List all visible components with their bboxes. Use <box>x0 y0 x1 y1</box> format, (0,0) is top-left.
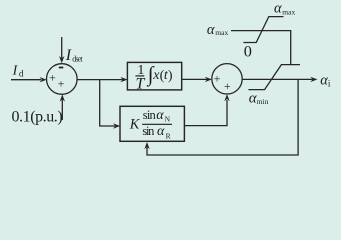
limiter L2 saturation glyph <box>248 65 300 90</box>
wire: S2 output to alpha_i <box>242 78 312 80</box>
svg-text:N: N <box>165 115 171 124</box>
svg-text:+: + <box>49 70 56 84</box>
wire: K block output up into S2 <box>184 100 227 126</box>
svg-text:I: I <box>65 47 72 64</box>
svg-text:R: R <box>166 132 171 141</box>
sign minus in S1 top <box>59 67 64 69</box>
arrowhead K output into S2 bottom <box>224 94 229 101</box>
svg-text:+: + <box>214 72 221 86</box>
arrowhead feedback into K bottom <box>144 142 149 149</box>
block U1 integrator <box>127 62 181 90</box>
wire: Id input line <box>11 79 41 81</box>
svg-text:0.1(p.u.): 0.1(p.u.) <box>12 109 63 126</box>
wire: branch down to K block input <box>100 80 115 126</box>
svg-text:α: α <box>156 108 164 123</box>
svg-text:α: α <box>157 124 165 139</box>
svg-text:dset: dset <box>72 54 83 63</box>
arrowhead into S1 left <box>40 77 47 82</box>
wire: S1 to integrator <box>77 79 122 81</box>
arrowhead into K block left <box>113 123 120 128</box>
wire: integrator to S2 <box>182 78 207 80</box>
arrowhead output alpha_i <box>310 77 317 82</box>
K block content: fraction bar <box>142 123 172 125</box>
svg-text:T: T <box>136 76 146 93</box>
wire: alpha_max input line into limiter L1 and down to limiter L2 <box>231 31 291 65</box>
svg-text:): ) <box>168 68 173 83</box>
limiter L1 saturation glyph <box>243 17 283 43</box>
wire: Idset drop line <box>61 37 63 59</box>
svg-text:max: max <box>282 7 295 16</box>
svg-text:sin: sin <box>142 124 155 138</box>
svg-text:min: min <box>257 97 269 106</box>
svg-text:+: + <box>224 79 231 93</box>
svg-text:α: α <box>207 22 215 38</box>
summing junction S2 <box>212 64 242 94</box>
arrowhead Idset into S1 top <box>59 56 64 63</box>
svg-text:max: max <box>215 28 228 37</box>
wire: feedback from alpha_i down and left to K block bottom <box>147 79 298 155</box>
arrowhead into S2 left <box>205 77 212 82</box>
wire: 0.1pu rise line <box>61 100 63 121</box>
arrowhead into integrator <box>120 77 127 82</box>
arrowhead 0.1pu into S1 bottom <box>60 94 65 101</box>
svg-text:0: 0 <box>244 42 252 61</box>
block U2 K gain <box>120 106 184 141</box>
svg-text:d: d <box>19 69 24 79</box>
svg-text:K: K <box>129 116 141 132</box>
svg-text:α: α <box>274 1 282 17</box>
summing junction S1 <box>47 64 78 95</box>
svg-text:+: + <box>58 76 65 90</box>
svg-text:sin: sin <box>143 108 157 122</box>
